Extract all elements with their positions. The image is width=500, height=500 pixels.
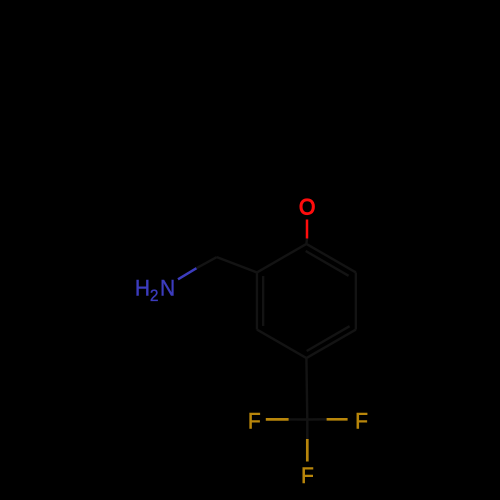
bond CF3 carbon to right F, fluorine-colored half (gold stub) [327,418,348,421]
bond CF3 carbon to right F, carbon-colored half [307,418,326,421]
benzene ring bond C3-C4 (lower-right) [306,330,355,359]
svg-text:O: O [299,194,315,220]
bond N to CH2, carbon-colored half [197,257,217,268]
benzene ring bond C6-C1 (upper-left) [257,244,306,273]
svg-text:N: N [160,275,175,301]
bond CF3 carbon to left F, fluorine-colored half (gold stub) [266,418,289,421]
benzene ring double bond inner line C3-C4 [307,326,350,351]
svg-text:H: H [135,275,150,301]
svg-text:2: 2 [150,286,159,305]
benzene ring bond C2-C3 (right edge) [355,272,357,329]
bond CH2 to ring C6 [217,257,257,272]
bond O to ring C1, oxygen-colored half (red stub) [306,220,309,239]
benzene ring bond C5-C6 (left edge) [256,272,258,329]
bond O to ring C1, carbon-colored half [305,239,308,244]
svg-text:F: F [248,408,261,434]
bond CF3 carbon to left F, carbon-colored half [289,418,308,421]
benzene ring bond C4-C5 (lower-left) [257,330,306,359]
bond CF3 carbon to bottom F, fluorine-colored half (gold stub) [306,439,309,462]
svg-text:F: F [355,408,368,434]
bond ring C4 to CF3 carbon [305,358,308,419]
bond CF3 carbon to bottom F, carbon-colored half [306,420,308,440]
benzene ring double bond inner line C5-C6 [262,276,264,326]
benzene ring double bond inner line C1-C2 [306,251,349,276]
svg-text:F: F [301,462,314,488]
benzene ring bond C1-C2 (top to upper-right) [306,244,355,273]
bond N to CH2, nitrogen-colored half (blue stub) [178,268,197,279]
